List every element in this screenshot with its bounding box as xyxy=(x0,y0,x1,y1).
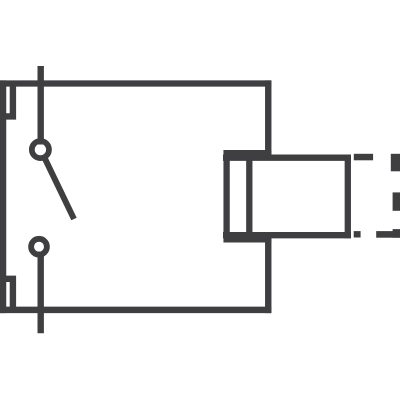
dashed extended plunger: top-right corner dash xyxy=(391,154,400,172)
switch body outline: right edge upper segment xyxy=(265,80,271,158)
plunger socket bracket xyxy=(227,153,272,239)
plunger button: top line xyxy=(223,155,351,161)
node: top contact post circle xyxy=(32,141,49,158)
dashed extended plunger: bottom line dash 1 xyxy=(354,231,361,237)
node: bottom contact post circle xyxy=(31,239,47,255)
dashed extended plunger: right line middle dash xyxy=(393,192,400,210)
switch body outline: left edge xyxy=(0,80,6,313)
switch body outline: bottom edge xyxy=(0,307,271,314)
plunger button: right border xyxy=(345,155,351,239)
dashed extended plunger: bottom line dash 2 xyxy=(376,231,400,238)
switch lever arm xyxy=(45,159,74,219)
switch body outline: right edge lower segment xyxy=(265,235,271,313)
mounting tab, top-left xyxy=(0,83,13,116)
plunger button: bottom line xyxy=(223,232,351,238)
dashed extended plunger: top line dash 1 xyxy=(354,154,373,161)
mounting tab, bottom-left xyxy=(0,279,13,313)
switch body outline: top edge xyxy=(0,80,271,86)
plunger button: left border xyxy=(246,155,252,238)
dashed extended plunger: bottom-right corner dash xyxy=(393,229,400,238)
wire: terminal pin 1 (top) xyxy=(38,66,44,145)
wire: terminal pin 2 (bottom) xyxy=(38,252,44,334)
